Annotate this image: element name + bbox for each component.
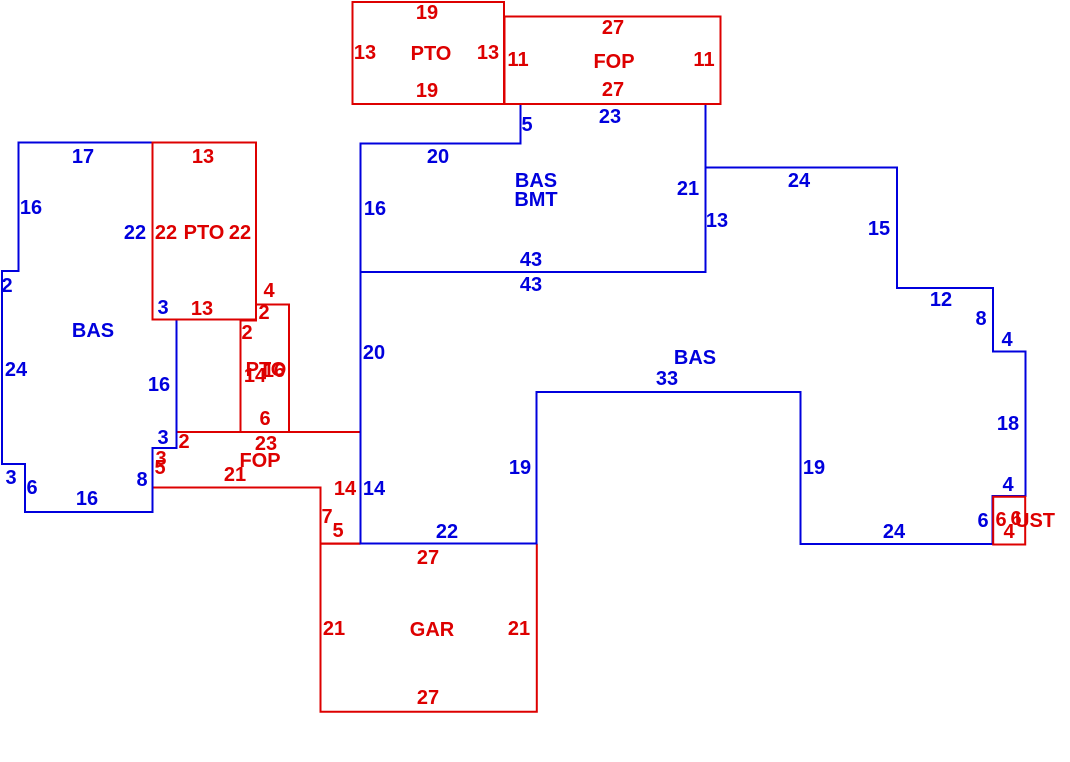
svg-text:27: 27 [417,687,439,709]
svg-text:22: 22 [436,521,458,543]
svg-text:24: 24 [788,170,811,192]
svg-text:21: 21 [677,178,699,200]
svg-text:16: 16 [263,360,285,382]
svg-text:16: 16 [148,374,170,396]
svg-text:16: 16 [76,488,98,510]
svg-text:6: 6 [26,477,37,499]
BAS/BMT labels [364,106,699,296]
svg-text:21: 21 [323,618,345,640]
svg-text:19: 19 [416,80,438,102]
svg-text:24: 24 [883,521,906,543]
svg-text:6: 6 [259,408,270,430]
svg-text:43: 43 [520,249,542,271]
svg-text:13: 13 [192,146,214,168]
svg-text:27: 27 [602,17,624,39]
svg-text:BAS: BAS [674,347,716,369]
svg-text:8: 8 [975,308,986,330]
svg-text:3: 3 [5,467,16,489]
svg-text:27: 27 [602,79,624,101]
svg-text:11: 11 [507,49,528,71]
svg-text:18: 18 [997,413,1019,435]
svg-text:16: 16 [364,198,386,220]
room PTO (top) outline [353,2,505,104]
top FOP labels [507,17,714,101]
svg-text:14: 14 [334,478,357,500]
room FOP (top) outline [505,17,721,105]
svg-text:17: 17 [72,146,94,168]
svg-text:4: 4 [1002,474,1014,496]
svg-text:BMT: BMT [514,189,557,211]
svg-text:23: 23 [599,106,621,128]
svg-text:22: 22 [124,222,146,244]
svg-text:20: 20 [363,342,385,364]
svg-text:27: 27 [417,547,439,569]
svg-text:21: 21 [508,618,530,640]
svg-text:4: 4 [1003,521,1015,543]
svg-text:2: 2 [1,275,12,297]
room GAR (garage) outline [321,544,537,712]
svg-text:13: 13 [191,298,213,320]
room BAS (large right) outline [361,168,1026,545]
room BAS (left basement/base area) outline [2,143,177,513]
svg-text:5: 5 [154,457,165,479]
svg-text:43: 43 [520,274,542,296]
svg-text:13: 13 [354,42,376,64]
svg-text:6: 6 [977,510,988,532]
svg-text:PTO: PTO [184,222,225,244]
svg-text:13: 13 [706,210,728,232]
svg-text:GAR: GAR [410,619,455,641]
svg-text:22: 22 [229,222,251,244]
svg-text:13: 13 [477,42,499,64]
svg-text:5: 5 [521,114,532,136]
svg-text:33: 33 [656,368,678,390]
UST labels [995,508,1055,543]
svg-text:24: 24 [5,359,28,381]
svg-text:2: 2 [258,302,269,324]
left PTO labels [155,146,251,320]
svg-text:20: 20 [427,146,449,168]
svg-text:UST: UST [1015,510,1055,532]
room UST (utility shed) outline [993,497,1025,545]
svg-text:2: 2 [178,431,189,453]
svg-text:4: 4 [1001,329,1013,351]
left BAS labels [1,146,170,510]
svg-text:BAS: BAS [72,320,114,342]
svg-text:3: 3 [157,427,168,449]
svg-text:4: 4 [263,280,275,302]
svg-text:11: 11 [693,49,714,71]
svg-text:12: 12 [930,289,952,311]
GAR labels [323,547,530,709]
svg-text:7: 7 [321,506,332,528]
svg-text:8: 8 [136,469,147,491]
svg-text:22: 22 [155,222,177,244]
room BAS/BMT (upper middle) outline [361,104,706,272]
svg-text:14: 14 [363,478,386,500]
svg-text:15: 15 [868,218,890,240]
room FOP (left, open porch) outline [153,432,361,544]
svg-text:2: 2 [241,322,252,344]
svg-text:21: 21 [224,464,246,486]
room PTO (upper-left patio attached to BAS) outline [153,143,257,320]
large BAS labels [363,170,1019,543]
top PTO labels [354,2,499,102]
svg-text:3: 3 [157,297,168,319]
svg-text:19: 19 [803,457,825,479]
svg-text:5: 5 [332,520,343,542]
svg-text:19: 19 [509,457,531,479]
svg-text:19: 19 [416,2,438,24]
svg-text:FOP: FOP [593,51,634,73]
svg-text:PTO: PTO [411,43,452,65]
left FOP labels [154,431,357,542]
svg-text:16: 16 [20,197,42,219]
small PTO labels [241,280,286,430]
room PTO (small middle patio) outline [241,305,290,433]
